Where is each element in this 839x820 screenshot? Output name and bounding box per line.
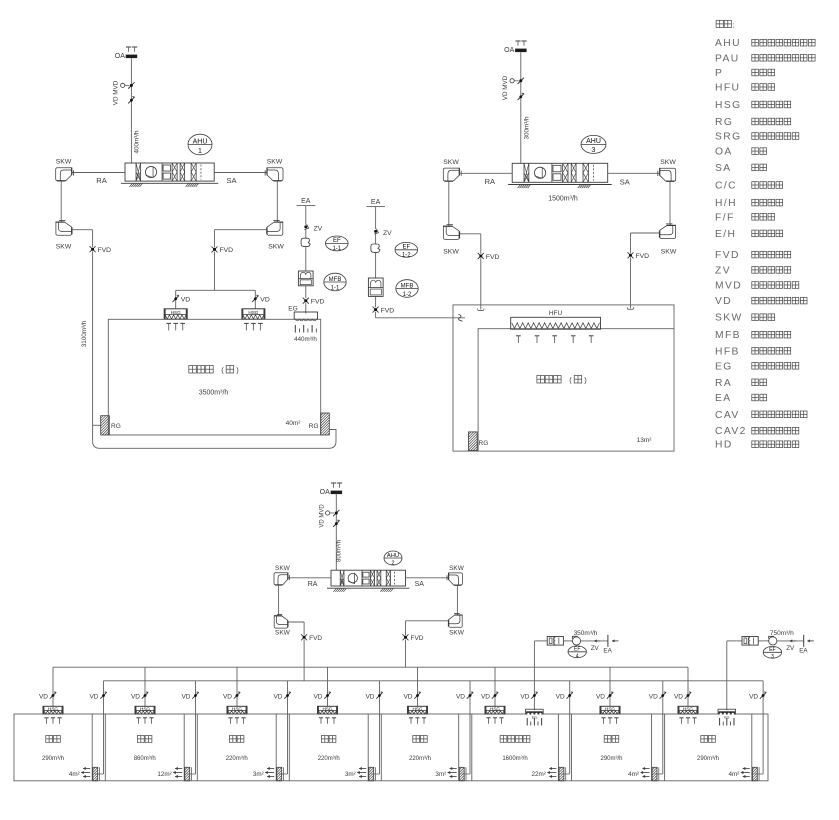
svg-text:VD: VD [715, 296, 732, 307]
svg-text:SKW: SKW [443, 159, 459, 166]
svg-text:VD: VD [89, 693, 98, 700]
svg-text:EF: EF [574, 647, 581, 653]
svg-text:CAV: CAV [715, 410, 740, 421]
svg-text:SA: SA [620, 177, 630, 186]
svg-text:SKW: SKW [449, 565, 465, 572]
svg-text:SKW: SKW [443, 248, 459, 255]
svg-text:VD: VD [365, 693, 374, 700]
svg-text:MFB: MFB [715, 330, 741, 341]
svg-text:VD: VD [39, 693, 48, 700]
svg-text:1-1: 1-1 [331, 286, 340, 292]
svg-text:13m²: 13m² [637, 437, 653, 444]
svg-text:VD: VD [749, 693, 758, 700]
svg-text:ZV: ZV [314, 226, 323, 233]
svg-text:800m³/h: 800m³/h [337, 540, 343, 562]
svg-text:220m³/h: 220m³/h [318, 756, 340, 762]
svg-text:HSG: HSG [715, 100, 742, 111]
svg-text:OA: OA [504, 47, 514, 54]
svg-text:440m³/h: 440m³/h [294, 336, 317, 343]
svg-text:HSG: HSG [490, 706, 500, 711]
svg-text:FVD: FVD [98, 247, 112, 254]
svg-text:750m³/h: 750m³/h [770, 630, 794, 637]
svg-text:300m³/h: 300m³/h [523, 116, 530, 140]
svg-text:RA: RA [96, 176, 106, 185]
svg-text:3: 3 [592, 147, 596, 154]
svg-text:SA: SA [715, 163, 732, 174]
svg-text:SKW: SKW [275, 630, 291, 637]
svg-text:ZV: ZV [591, 645, 600, 652]
svg-text:1600m³/h: 1600m³/h [502, 756, 527, 762]
svg-text:FVD: FVD [220, 247, 234, 254]
svg-text:12m²: 12m² [157, 771, 171, 778]
svg-text:MFB: MFB [329, 277, 342, 283]
svg-text:RG: RG [111, 423, 121, 430]
svg-text:860m³/h: 860m³/h [134, 756, 156, 762]
svg-text:220m³/h: 220m³/h [226, 756, 248, 762]
svg-text:1-2: 1-2 [403, 292, 412, 298]
svg-text:4: 4 [576, 654, 579, 660]
svg-text:3500m³/h: 3500m³/h [199, 390, 229, 397]
svg-text:VD: VD [260, 297, 270, 304]
svg-text:HSG: HSG [683, 706, 693, 711]
svg-text:EG: EG [715, 361, 733, 372]
svg-text:VD: VD [181, 693, 190, 700]
svg-text:VD MVD: VD MVD [113, 80, 120, 105]
svg-text:EA: EA [715, 393, 732, 404]
svg-text:HSG: HSG [48, 706, 58, 711]
svg-text:3m²: 3m² [435, 771, 446, 778]
svg-text:3m²: 3m² [345, 771, 356, 778]
svg-text:SKW: SKW [449, 630, 465, 637]
svg-text:VD: VD [131, 693, 140, 700]
svg-text:HSG: HSG [413, 706, 423, 711]
svg-text:RA: RA [308, 581, 318, 588]
svg-text:SRG: SRG [715, 132, 742, 143]
svg-text:VD: VD [520, 693, 529, 700]
svg-text:HSG: HSG [248, 310, 258, 315]
svg-text:VD: VD [596, 693, 605, 700]
svg-text:C/C: C/C [715, 181, 737, 192]
svg-text:HSG: HSG [171, 310, 181, 315]
svg-text:FVD: FVD [486, 254, 500, 261]
svg-text:4m²: 4m² [728, 771, 739, 778]
svg-text:3100m³/h: 3100m³/h [81, 320, 88, 347]
svg-text:EA: EA [301, 198, 311, 205]
svg-text:1-2: 1-2 [402, 253, 411, 259]
svg-text:VD: VD [223, 693, 232, 700]
svg-text:RG: RG [309, 423, 319, 430]
svg-text:3: 3 [771, 654, 774, 660]
svg-text:EA: EA [603, 647, 612, 654]
svg-text:AHU: AHU [193, 138, 208, 145]
svg-text::: : [733, 22, 735, 29]
svg-text:VD: VD [481, 693, 490, 700]
svg-text:VD: VD [649, 693, 658, 700]
svg-text:22m²: 22m² [532, 771, 546, 778]
svg-text:VD: VD [273, 693, 282, 700]
svg-text:SKW: SKW [267, 159, 283, 166]
svg-text:SKW: SKW [275, 565, 291, 572]
svg-text:RA: RA [485, 177, 495, 186]
svg-text:40m²: 40m² [286, 420, 302, 427]
svg-text:AHU: AHU [387, 553, 399, 559]
svg-text:220m³/h: 220m³/h [409, 756, 431, 762]
svg-text:HFB: HFB [715, 346, 740, 357]
svg-text:EA: EA [371, 199, 381, 206]
svg-text:HFU: HFU [549, 310, 563, 317]
svg-text:1-1: 1-1 [332, 246, 341, 252]
svg-text:CAV2: CAV2 [715, 426, 747, 437]
svg-text:290m³/h: 290m³/h [697, 756, 719, 762]
svg-text:VD MVD: VD MVD [502, 75, 509, 100]
svg-text:SA: SA [415, 581, 425, 588]
svg-text:SKW: SKW [660, 159, 676, 166]
svg-text:2: 2 [391, 561, 394, 567]
svg-text:FVD: FVD [311, 299, 325, 306]
svg-text:4m²: 4m² [69, 771, 80, 778]
svg-text:FVD: FVD [636, 253, 650, 260]
svg-text:EA: EA [799, 647, 808, 654]
svg-text:MVD: MVD [715, 281, 742, 292]
svg-text:VD MVD: VD MVD [320, 504, 326, 528]
svg-text:HSG: HSG [140, 706, 150, 711]
svg-text:HSG: HSG [232, 706, 242, 711]
svg-text:MFB: MFB [401, 283, 414, 289]
svg-text:290m³/h: 290m³/h [600, 756, 622, 762]
svg-text:RG: RG [479, 440, 489, 447]
svg-text:SKW: SKW [715, 313, 743, 324]
svg-text:OA: OA [115, 53, 125, 60]
svg-text:VD: VD [403, 693, 412, 700]
svg-text:P: P [715, 68, 723, 79]
svg-text:400m³/h: 400m³/h [134, 130, 141, 154]
svg-text:OA: OA [715, 147, 733, 158]
svg-text:SKW: SKW [268, 244, 284, 251]
svg-text:4m²: 4m² [628, 771, 639, 778]
svg-text:VD: VD [313, 693, 322, 700]
svg-text:ZV: ZV [715, 265, 731, 276]
svg-text:VD: VD [556, 693, 565, 700]
svg-text:E/H: E/H [715, 229, 736, 240]
svg-text:PAU: PAU [715, 53, 740, 64]
svg-text:RG: RG [715, 117, 733, 128]
svg-text:HSG: HSG [605, 706, 615, 711]
svg-text:3m²: 3m² [253, 771, 264, 778]
svg-text:EG: EG [288, 306, 297, 313]
svg-text:1: 1 [198, 148, 202, 155]
svg-text:290m³/h: 290m³/h [42, 756, 64, 762]
svg-text:FVD: FVD [309, 635, 322, 642]
svg-text:ZV: ZV [786, 645, 795, 652]
svg-text:VD: VD [674, 693, 683, 700]
svg-text:SKW: SKW [56, 244, 72, 251]
svg-text:EF: EF [333, 238, 341, 244]
svg-text:SKW: SKW [661, 249, 677, 256]
svg-text:VD: VD [181, 297, 191, 304]
svg-text:VD: VD [456, 693, 465, 700]
svg-text:EF: EF [769, 647, 776, 653]
svg-text:HFU: HFU [715, 83, 740, 94]
svg-text:OA: OA [320, 489, 330, 496]
svg-text:H/H: H/H [715, 198, 737, 209]
svg-text:RA: RA [715, 378, 732, 389]
svg-text:FVD: FVD [381, 307, 395, 314]
svg-text:ZV: ZV [383, 230, 392, 237]
svg-text:F/F: F/F [715, 212, 735, 223]
svg-text:HSG: HSG [323, 706, 333, 711]
svg-text:FVD: FVD [411, 635, 424, 642]
svg-text:AHU: AHU [715, 38, 741, 49]
svg-text:1500m³/h: 1500m³/h [548, 195, 578, 202]
svg-text:HD: HD [715, 440, 733, 451]
svg-text:SA: SA [226, 176, 236, 185]
svg-text:EF: EF [402, 245, 410, 251]
svg-text:AHU: AHU [586, 138, 601, 145]
svg-text:SKW: SKW [56, 159, 72, 166]
svg-text:FVD: FVD [715, 250, 740, 261]
svg-text:350m³/h: 350m³/h [574, 630, 598, 637]
